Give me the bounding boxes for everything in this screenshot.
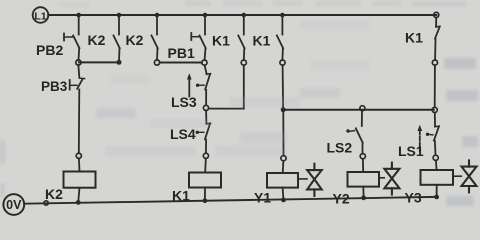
valve symbol for Y2 <box>379 163 399 195</box>
wire: into coil Y1 <box>282 161 285 173</box>
wire: K1 seal branch down and across to LS column <box>209 65 244 108</box>
node: terminal above coil K1 <box>203 153 208 158</box>
solenoid coil Y1 <box>254 173 298 206</box>
node: K1 output lower terminal <box>280 60 285 65</box>
node: K1 coil to 0V rail <box>203 198 208 203</box>
node: PB2 lower terminal <box>76 60 81 65</box>
svg-text:K2: K2 <box>88 32 106 48</box>
svg-text:L1: L1 <box>34 10 46 22</box>
limit switch LS2 <box>327 111 363 156</box>
node: rail junction at K2 interlock branch <box>155 13 160 18</box>
contact K2 seal-in (NO) <box>88 15 120 61</box>
pushbutton PB3 (NC) <box>41 65 85 153</box>
node: Y3 coil to 0V rail end <box>434 195 439 200</box>
node: K1 seal lower terminal <box>241 60 246 65</box>
wire: into coil K2 <box>78 158 81 171</box>
relay coil K2 <box>45 172 96 203</box>
svg-text:LS4: LS4 <box>170 126 196 142</box>
wire: output bus to LS1 column <box>283 109 434 111</box>
svg-text:Y1: Y1 <box>254 190 271 206</box>
wire: into coil K1 <box>204 158 207 172</box>
node: Y1 coil to 0V rail <box>281 198 286 203</box>
return terminal 0V <box>3 194 24 215</box>
svg-text:PB1: PB1 <box>168 45 195 61</box>
limit switch LS3 (with raised-cam arrow) <box>171 73 211 110</box>
wire: into coil Y2 <box>362 159 364 172</box>
node: rail junction at PB2 branch <box>76 13 81 18</box>
contact K1 output (NO) <box>253 15 284 60</box>
svg-text:LS1: LS1 <box>398 143 424 159</box>
svg-text:LS2: LS2 <box>327 140 353 156</box>
relay coil K1 <box>172 173 221 204</box>
node: bus junction under K1 output <box>281 107 286 112</box>
svg-text:K1: K1 <box>212 33 230 49</box>
supply terminal L1 <box>33 7 49 23</box>
svg-text:PB2: PB2 <box>36 42 63 58</box>
wire: bus down to coil Y1 <box>282 111 284 156</box>
svg-text:K1: K1 <box>405 30 423 46</box>
pushbutton PB2 (NO) <box>36 15 79 60</box>
node: rail junction at K1 output branch <box>280 13 285 18</box>
node: rail junction at K1 seal contact branch <box>242 13 247 18</box>
contact K1 seal-in (NO) <box>212 15 245 60</box>
solenoid coil Y3 <box>405 170 454 206</box>
svg-text:LS3: LS3 <box>171 94 197 110</box>
limit switch LS4 <box>170 111 211 154</box>
contact K2 (NO, second) <box>126 15 158 60</box>
wire: K1 output contact down to bus <box>282 65 285 108</box>
solenoid coil Y2 <box>333 172 380 207</box>
wire: down to output bus <box>434 65 436 107</box>
node: terminal above coil Y2 <box>360 154 365 159</box>
node: bus end terminal <box>432 107 437 112</box>
node: bus terminal above LS2 <box>360 106 365 111</box>
node: terminal above coil Y3 <box>433 155 438 160</box>
wire: PB1 terminal down to LS3 <box>205 65 207 74</box>
node: rail junction at K2 seal contact branch <box>117 13 122 18</box>
node: K1 right branch mid terminal <box>432 60 437 65</box>
svg-text:0V: 0V <box>6 198 22 212</box>
svg-text:K2: K2 <box>126 32 144 48</box>
top supply rail wire <box>48 14 436 16</box>
wire: link K2 second to PB1 bottom <box>160 62 202 64</box>
node: K2 coil to 0V rail <box>76 200 81 205</box>
node: PB1 lower terminal <box>202 60 207 65</box>
wire: seal-in link PB2 to K2 <box>79 61 119 63</box>
bottom return rail wire <box>24 197 436 204</box>
wire: into coil Y3 <box>435 160 438 170</box>
svg-text:K1: K1 <box>253 33 271 49</box>
svg-text:K2: K2 <box>45 186 63 202</box>
limit switch LS1 (with raised-cam dashed arrow) <box>398 113 439 160</box>
node: K2 second lower terminal <box>154 60 159 65</box>
node: Y2 coil to 0V rail <box>361 195 366 200</box>
node: terminal above coil K2 <box>76 153 81 158</box>
svg-text:PB3: PB3 <box>41 79 68 94</box>
node: K2 seal lower junction <box>117 60 122 65</box>
node: junction LS3/LS4 with K1 seal branch <box>203 105 208 110</box>
node: terminal above coil Y1 <box>281 156 286 161</box>
contact K1 (right branch, NO) <box>405 12 440 60</box>
valve symbol for Y1 <box>298 164 322 196</box>
node: spare terminal on 0V rail <box>44 201 48 205</box>
valve symbol for Y3 <box>453 160 477 192</box>
pushbutton PB1 (NO) <box>168 15 206 61</box>
node: rail junction at PB1 branch <box>203 13 208 18</box>
